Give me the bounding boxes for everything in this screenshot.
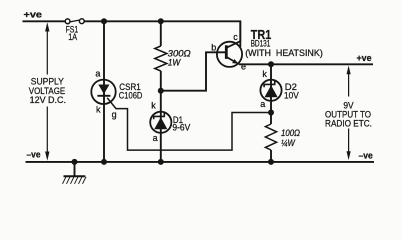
svg-text:a: a — [153, 133, 158, 143]
svg-text:1A: 1A — [68, 32, 77, 42]
svg-text:e: e — [241, 62, 246, 72]
svg-text:TR1: TR1 — [251, 27, 271, 42]
svg-text:k: k — [151, 100, 156, 110]
svg-text:RADIO ETC.: RADIO ETC. — [325, 119, 372, 129]
svg-text:10V: 10V — [284, 91, 299, 101]
svg-text:c: c — [233, 32, 238, 42]
svg-text:g: g — [112, 109, 117, 119]
svg-text:k: k — [96, 104, 101, 114]
svg-text:–ve: –ve — [359, 151, 373, 161]
svg-text:+ve: +ve — [357, 53, 372, 63]
svg-text:b: b — [211, 43, 216, 53]
svg-text:k: k — [262, 69, 267, 79]
svg-text:12V D.C.: 12V D.C. — [30, 95, 66, 105]
svg-text:a: a — [260, 99, 265, 109]
svg-text:C106D: C106D — [119, 91, 143, 101]
svg-text:SUPPLY: SUPPLY — [31, 76, 64, 86]
svg-text:100Ω: 100Ω — [281, 128, 300, 138]
svg-text:9-6V: 9-6V — [172, 123, 190, 133]
svg-text:+ve: +ve — [24, 10, 43, 20]
svg-text:(WITH HEATSINK): (WITH HEATSINK) — [245, 48, 323, 58]
svg-text:1W: 1W — [168, 58, 181, 68]
svg-text:–ve: –ve — [27, 149, 41, 159]
svg-text:a: a — [95, 69, 100, 79]
svg-text:¼W: ¼W — [281, 138, 295, 148]
